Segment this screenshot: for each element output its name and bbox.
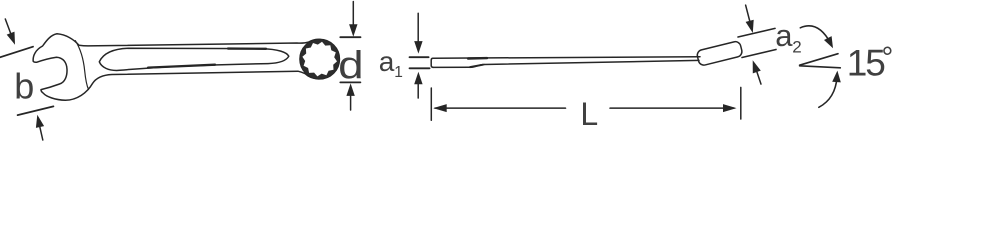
dim a2 bottom arrowhead <box>753 60 761 73</box>
dim d top arrow shaft <box>352 2 354 29</box>
dim a2 bottom extension tick <box>742 50 776 58</box>
dim a1 top tick <box>410 56 429 58</box>
dim b top extension tick <box>0 47 33 58</box>
dim L dimension line left segment <box>435 107 566 109</box>
dim d bottom arrowhead <box>346 83 354 96</box>
side view left rounded cap <box>431 58 433 67</box>
svg-text:a: a <box>379 46 395 77</box>
dim b bottom extension tick <box>18 106 54 115</box>
svg-text:L: L <box>580 96 598 132</box>
15 degree lower curved arrow arc <box>819 77 837 107</box>
side view ring head (angled) <box>696 41 743 67</box>
side view jaw step emphasis bottom <box>470 65 483 67</box>
side view top edge <box>433 57 700 59</box>
svg-text:°: ° <box>881 42 893 75</box>
side view shank bottom edge <box>484 60 699 64</box>
15 degree wedge upper line <box>800 54 838 65</box>
dim a1 bottom arrowhead <box>414 72 422 85</box>
dim a1 top arrow shaft <box>417 13 419 45</box>
dim b bottom arrow shaft <box>39 125 42 140</box>
dim a2 top arrow shaft <box>746 5 751 24</box>
head neck crease <box>75 41 88 90</box>
dim L right arrowhead <box>723 104 737 112</box>
panel top edge shading dash <box>228 47 266 50</box>
15 degree upper curved arrow arc <box>800 26 830 43</box>
dim b bottom arrowhead <box>36 115 44 128</box>
svg-text:b: b <box>14 65 34 106</box>
handle inner panel <box>99 48 288 70</box>
dim L dimension line right segment <box>610 107 734 109</box>
svg-text:2: 2 <box>792 38 801 57</box>
dim a2 top arrowhead <box>746 20 754 33</box>
dim a1 bottom tick <box>410 67 430 69</box>
ring end outer circle <box>300 39 339 78</box>
dim L left arrowhead <box>433 104 447 112</box>
dim b top arrowhead <box>7 32 15 45</box>
svg-text:15: 15 <box>847 42 886 83</box>
15 degree wedge lower line <box>800 66 841 68</box>
dim d top arrowhead <box>349 24 357 37</box>
svg-text:1: 1 <box>394 64 403 81</box>
15 degree upper arc arrowhead <box>824 36 833 48</box>
dim d top tick <box>340 36 360 38</box>
dim d bottom arrow shaft <box>350 92 352 110</box>
dim a2 top extension tick <box>738 28 775 37</box>
dim L right extension line <box>740 87 742 119</box>
dim a2 bottom arrow shaft <box>756 68 761 84</box>
dim a1 top arrowhead <box>414 41 422 54</box>
dim a1 bottom arrow shaft <box>417 80 419 98</box>
dim d bottom tick <box>340 81 360 83</box>
15 degree lower arc arrowhead <box>832 71 841 83</box>
panel bottom edge shading dash <box>148 65 215 68</box>
svg-text:a: a <box>775 18 793 53</box>
wrench top view outer outline <box>33 34 338 101</box>
dim L left extension line <box>430 88 432 120</box>
side view jaw step emphasis top <box>468 57 487 60</box>
dim b top arrow shaft <box>5 19 12 38</box>
ring end bi-hex hole <box>300 40 339 79</box>
svg-text:d: d <box>338 44 364 87</box>
side view bottom edge left head segment <box>433 65 484 68</box>
